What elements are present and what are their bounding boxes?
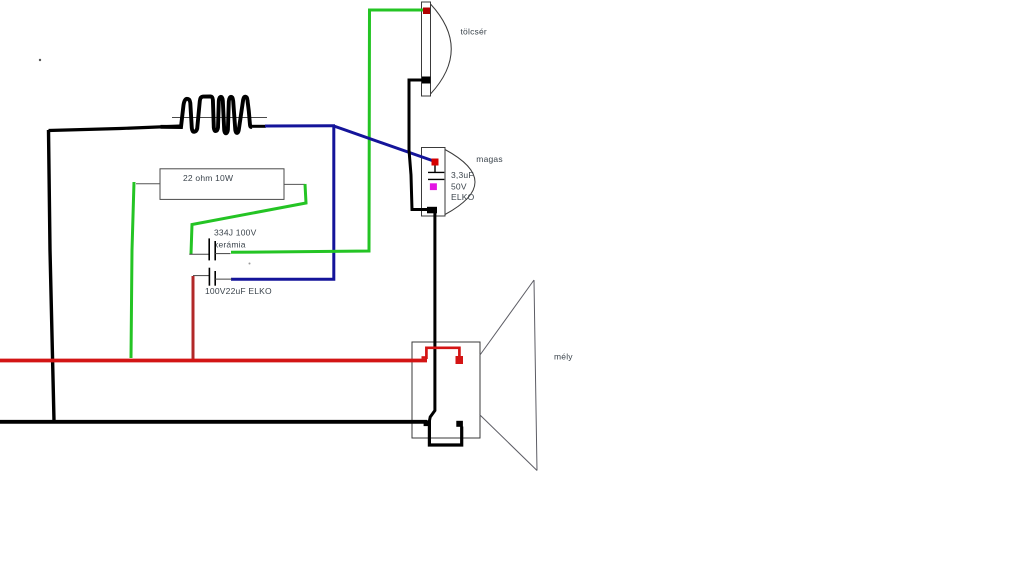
svg-text:kerámia: kerámia bbox=[214, 239, 246, 249]
woofer speaker (mély) body bbox=[412, 342, 480, 438]
capacitor C1 right plate bbox=[214, 241, 216, 260]
wire: green from ceramic cap right to horn + terminal bbox=[231, 10, 424, 252]
woofer cone bottom line bbox=[480, 415, 538, 471]
svg-text:50V: 50V bbox=[451, 181, 467, 191]
svg-text:22 ohm 10W: 22 ohm 10W bbox=[183, 173, 233, 183]
capacitor C2 left plate bbox=[208, 268, 210, 286]
wire: green from resistor right down-left to ceramic cap bbox=[191, 184, 306, 254]
svg-text:3,3uF: 3,3uF bbox=[451, 170, 474, 180]
internal cap plate top bbox=[428, 171, 444, 173]
inductor L1 axis line bbox=[172, 117, 267, 119]
tweeter + terminal (red) bbox=[432, 159, 439, 166]
horn speaker (tölcsér) body bbox=[422, 2, 431, 96]
wire: blue from coil to junction bbox=[265, 124, 335, 127]
junction blob bbox=[424, 420, 430, 426]
svg-text:334J 100V: 334J 100V bbox=[214, 228, 257, 238]
stray dot bbox=[39, 59, 41, 61]
resistor R1 right lead bbox=[284, 183, 305, 185]
wire: blue vertical down and left to 22uF cap bbox=[231, 126, 334, 279]
svg-text:tölcsér: tölcsér bbox=[461, 27, 487, 37]
wire: red rail horizontal bbox=[0, 359, 427, 363]
wire: black from magas - terminal down into woofer bbox=[429, 213, 435, 421]
capacitor C1 left lead bbox=[189, 253, 209, 255]
wire: green left vertical (resistor to red rail) bbox=[131, 182, 134, 358]
wire: black left vertical bbox=[49, 130, 55, 421]
woofer cone top line bbox=[480, 280, 534, 355]
red rail end notch bbox=[422, 356, 428, 359]
resistor R1 box 22 ohm 10W bbox=[160, 169, 284, 200]
capacitor C2 100V22uF ELKO left lead bbox=[193, 275, 209, 277]
tweeter speaker (magas) body bbox=[422, 148, 446, 217]
wire: dark red from 22uF cap down to red rail bbox=[192, 276, 195, 359]
capacitor C1 left plate bbox=[208, 238, 210, 260]
internal cap plate bottom bbox=[428, 178, 444, 180]
capacitor C1 right lead bbox=[215, 253, 230, 255]
wire: blue diagonal to magas + terminal bbox=[334, 126, 435, 162]
woofer + terminal (red) bbox=[456, 356, 464, 364]
wire: red step to woofer + terminal bbox=[426, 348, 459, 359]
capacitor C2 right lead bbox=[215, 278, 232, 280]
tweeter - terminal (black) bbox=[427, 207, 437, 214]
wire: black stub right of coil bbox=[250, 125, 266, 128]
svg-text:ELKO: ELKO bbox=[451, 192, 475, 202]
horn speaker cone arc bbox=[431, 4, 452, 94]
horn - terminal (black) bbox=[422, 77, 431, 84]
resistor R1 left lead bbox=[136, 183, 160, 185]
tweeter cone arc bbox=[445, 150, 475, 215]
stray mark bbox=[249, 263, 251, 265]
wire: black from horn - terminal down to magas - terminal bbox=[409, 80, 429, 210]
wire: black bottom horizontal bbox=[0, 420, 427, 424]
capacitor C2 right plate bbox=[214, 271, 216, 286]
svg-text:magas: magas bbox=[476, 154, 503, 164]
wire: black U to woofer - terminal bbox=[429, 421, 461, 446]
svg-text:100V22uF ELKO: 100V22uF ELKO bbox=[205, 286, 272, 296]
internal terminal (magenta) bbox=[430, 183, 437, 190]
wire: black input top horizontal bbox=[49, 126, 183, 131]
inductor L1 coil bbox=[161, 96, 252, 133]
woofer - terminal (black) bbox=[456, 421, 463, 427]
horn + terminal (red) bbox=[423, 8, 430, 15]
internal cap stub bbox=[434, 166, 436, 173]
woofer cone mouth vertical bbox=[534, 280, 537, 471]
svg-text:mély: mély bbox=[554, 352, 573, 362]
